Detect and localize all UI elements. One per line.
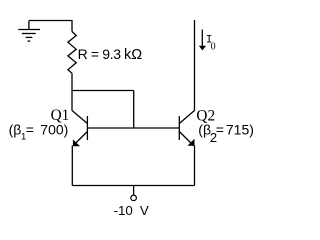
svg-text:R = 9.3: R = 9.3 — [78, 46, 122, 62]
transistor Q2 — [179, 111, 194, 146]
resistor R zigzag — [68, 32, 76, 74]
wire Q2 collector lead — [194, 20, 196, 111]
svg-text:0: 0 — [211, 42, 216, 53]
node -10V terminal circle — [131, 195, 137, 201]
wire bottom rail — [72, 185, 194, 187]
svg-text:=: = — [26, 122, 34, 138]
svg-text:(β: (β — [9, 122, 22, 138]
wire Q1 collector lead — [71, 91, 73, 111]
svg-text:-10: -10 — [114, 203, 133, 218]
wire collector-base tie top — [72, 90, 134, 92]
wire ground to resistor top — [29, 21, 72, 32]
wire resistor bottom to node — [71, 73, 73, 90]
svg-text:=: = — [216, 122, 224, 138]
wire stub to -10V terminal — [133, 186, 135, 195]
ground — [18, 21, 40, 42]
svg-text:700): 700) — [40, 122, 68, 138]
svg-text:V: V — [140, 203, 149, 218]
wire base Q1 to Q2 — [87, 127, 179, 129]
current arrow I0 — [199, 30, 206, 51]
svg-text:715): 715) — [226, 122, 254, 138]
wire collector-base tie vertical — [133, 91, 135, 129]
transistor Q1 — [72, 111, 87, 147]
wire Q1 emitter lead — [71, 146, 73, 186]
label beta1 — [9, 122, 69, 143]
svg-text:kΩ: kΩ — [124, 47, 142, 63]
label beta2 — [198, 122, 254, 146]
wire Q2 emitter lead — [194, 146, 196, 186]
